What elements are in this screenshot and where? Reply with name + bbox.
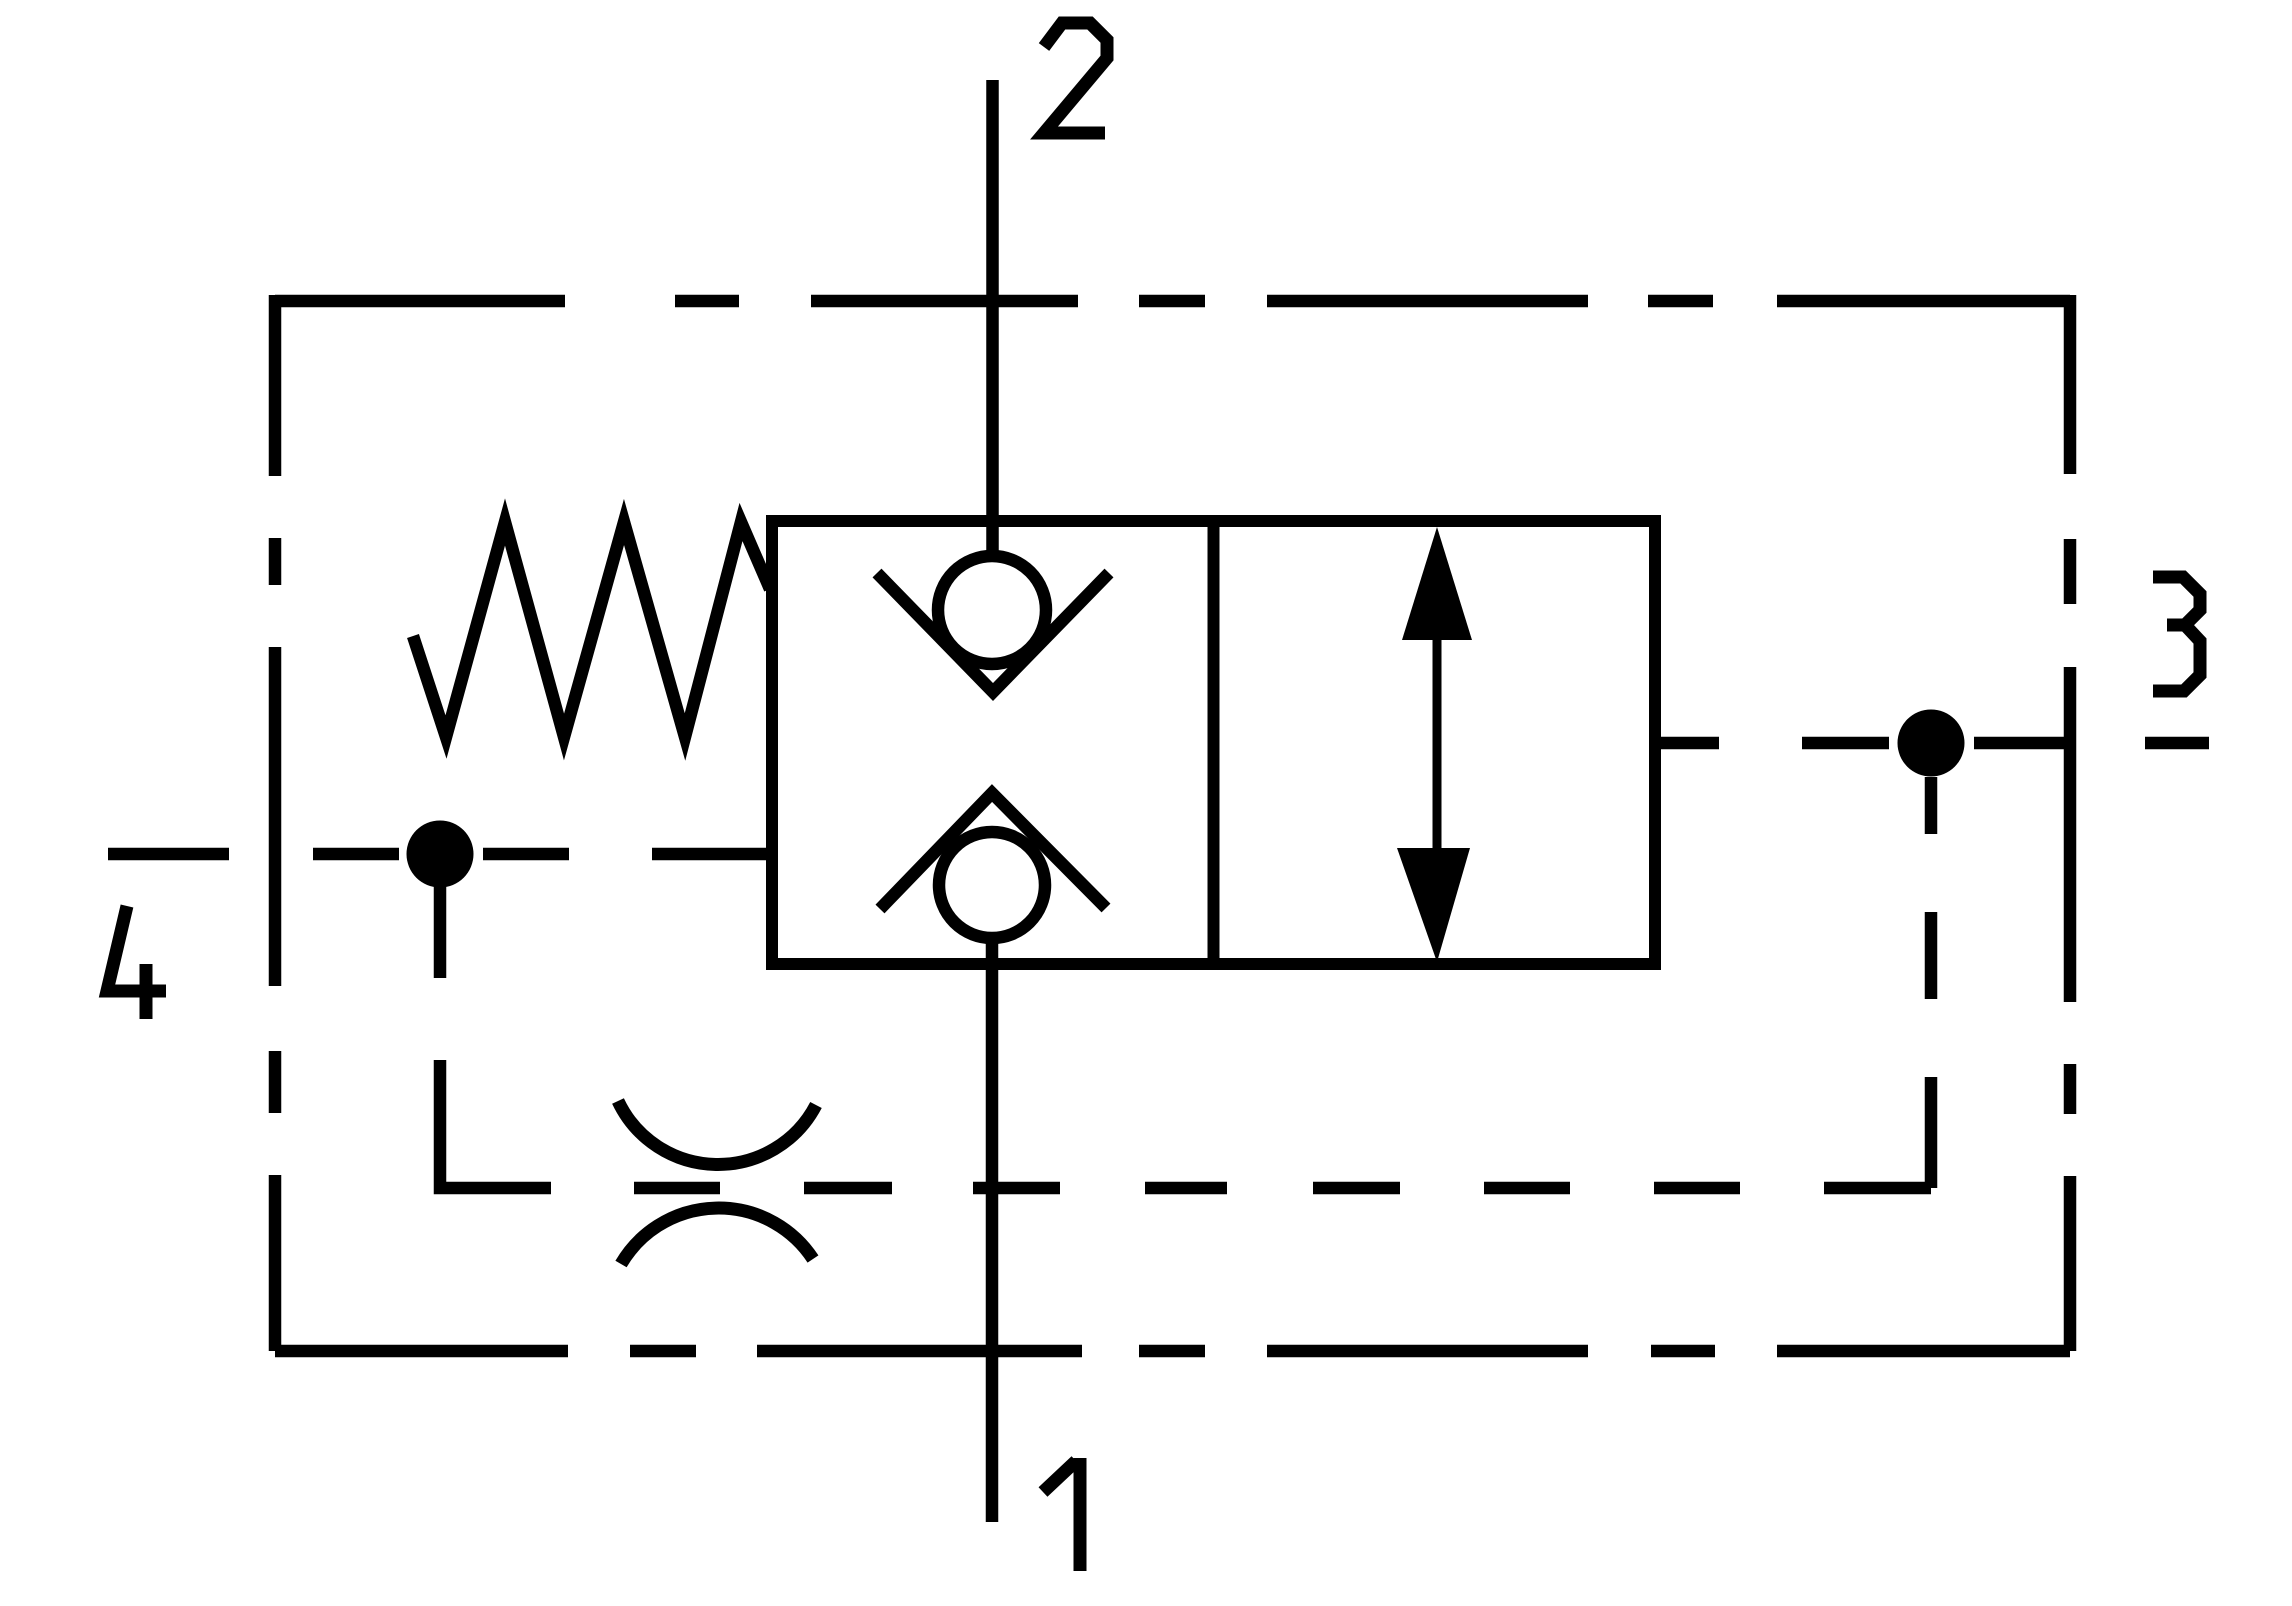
port label 4 [107, 906, 166, 1019]
cartridge envelope bottom edge (dash-dot) [275, 1345, 2070, 1358]
check valve A ball (upper circle) [938, 556, 1046, 664]
pilot bottom run (dashed) [634, 1182, 1931, 1195]
orifice lower arc [621, 1208, 813, 1264]
check valve A seat (upper V) [877, 573, 1109, 692]
cartridge envelope right edge (dash-dot) [2064, 295, 2077, 1351]
port 3 stub from valve [1656, 737, 1889, 750]
pilot line port 4 to valve (dashed) [313, 848, 772, 861]
node dot port 3 [1898, 710, 1965, 777]
pilot drop line from node 4 (dashed) [440, 887, 551, 1188]
check valve B seat (lower inverted V) [880, 793, 1106, 909]
valve body outline [772, 521, 1655, 964]
cartridge envelope top edge (dash-dot) [275, 295, 2070, 308]
pilot riser to node 3 (dashed) [1925, 777, 1938, 1188]
pilot spool arrow stem [1433, 630, 1442, 855]
arrow head up [1402, 527, 1472, 640]
port 3 line to envelope [1974, 737, 2064, 750]
port 3 outer tick [2145, 737, 2209, 750]
orifice upper arc [618, 1101, 816, 1164]
port label 2 [1044, 23, 1107, 133]
arrow head down [1397, 848, 1470, 962]
wire port 2 vertical line [986, 80, 999, 560]
node dot port 4 [407, 821, 474, 888]
wire port 1 vertical line [986, 939, 999, 1522]
port label 3 [2153, 577, 2200, 691]
cartridge envelope left edge (dash-dot) [269, 295, 282, 1351]
port 4 outer tick [108, 848, 229, 861]
valve body divider line [1208, 521, 1220, 964]
port label 1 [1043, 1458, 1080, 1571]
check valve B ball (lower circle) [939, 832, 1045, 938]
spring [413, 522, 770, 737]
